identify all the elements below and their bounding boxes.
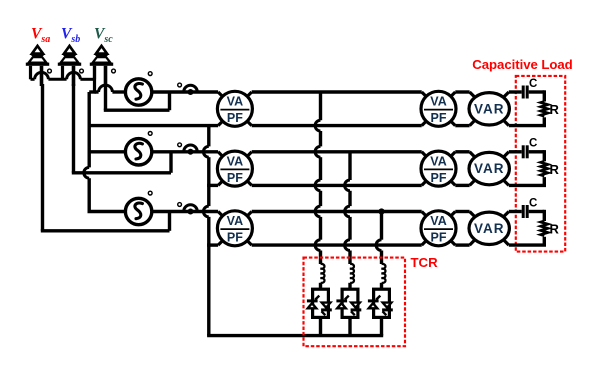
AC source phase c (125, 198, 151, 224)
svg-text:VA: VA (430, 214, 446, 228)
svg-text:TCR: TCR (411, 255, 439, 270)
svg-text:VA: VA (430, 154, 446, 168)
node circle (178, 83, 182, 87)
svg-text:C: C (529, 78, 537, 90)
node circle (178, 143, 182, 147)
wire: row2 return up to phase b node (169, 152, 172, 173)
AC source phase b (125, 139, 151, 165)
svg-text:C: C (529, 138, 537, 150)
top rail row1 mid (252, 90, 422, 93)
neutral bus along probe left pins (31, 78, 35, 81)
svg-text:VA: VA (430, 95, 446, 109)
bottom rail row1 mid (252, 124, 422, 127)
wire thyristor block 1 to bus (319, 317, 322, 335)
svg-text:PF: PF (227, 111, 243, 125)
svg-text:Capacitive Load: Capacitive Load (472, 57, 572, 72)
VA/PF meter row3 right (421, 211, 456, 246)
wire: row3 return horizontal (41, 229, 170, 232)
voltage probe V_sa (26, 46, 49, 86)
VAR meter row1 (469, 93, 509, 125)
wire: row3 return up to phase c node (168, 212, 171, 231)
bus hop over V_sb pin (67, 72, 81, 79)
wire: VAR to capacitor row3 (509, 210, 522, 213)
bottom wire back to VAR row3 (509, 243, 546, 246)
neutral: step to vertical (89, 90, 96, 93)
AC source phase a (125, 79, 151, 105)
inductor L1 (321, 264, 325, 283)
wire: AC b output (152, 150, 218, 153)
svg-text:VAR: VAR (474, 161, 505, 176)
meter stubs (218, 152, 222, 156)
capacitor C row1 (522, 86, 525, 99)
TCR dashed box (304, 258, 406, 347)
meter stubs (470, 212, 475, 217)
top rail row3 between meters (455, 210, 469, 213)
wire: VAR to capacitor row2 (509, 150, 522, 153)
bottom rail row1 between meters (455, 124, 469, 127)
VAR meter row2 (469, 152, 509, 184)
meter stubs (422, 152, 426, 156)
meter stubs (470, 152, 475, 157)
meter stubs (218, 212, 222, 216)
wire: V_sa pin down to row3 return (41, 84, 44, 231)
VA/PF meter row2 right (421, 151, 456, 186)
thyristor pair T3 (368, 289, 393, 317)
top rail row2 between meters (455, 150, 469, 153)
svg-text:PF: PF (431, 111, 447, 125)
tap wire phase b to TCR (348, 152, 351, 180)
VA/PF meter row1 right (421, 91, 456, 126)
meter stubs (470, 92, 475, 97)
svg-text:R: R (550, 162, 560, 177)
voltage probe V_sc (90, 46, 113, 86)
tap wire phase a to TCR (319, 92, 322, 120)
thyristor pair T1 (307, 289, 332, 317)
wire inductor to thyristor block 2 (348, 283, 351, 290)
voltage probe V_sb (58, 46, 81, 86)
junction dot with arc (188, 89, 194, 95)
svg-text:PF: PF (431, 171, 447, 185)
top rail row1 between meters (455, 90, 469, 93)
wire: V_sc pin down to row1 return (104, 84, 107, 110)
node circle (148, 191, 152, 195)
resistor R row3 (541, 221, 548, 236)
inductor L3 (382, 264, 386, 283)
node circle (148, 132, 152, 136)
thyristor pair T2 (336, 289, 361, 317)
svg-text:VA: VA (227, 154, 243, 168)
wire: AC a output (152, 90, 218, 93)
wire: neutral to AC source b (89, 150, 125, 153)
wire: VAR to capacitor row1 (509, 90, 522, 93)
svg-text:VA: VA (227, 214, 243, 228)
capacitor C row2 (522, 145, 525, 158)
top rail row2 mid (252, 150, 422, 153)
TCR bottom bus (207, 334, 383, 337)
svg-text:PF: PF (431, 231, 447, 245)
wire: resistor to bottom rail row2 (543, 177, 546, 185)
wire: capacitor to resistor row1 (529, 90, 545, 93)
node circle (148, 72, 152, 76)
svg-text:VA: VA (227, 95, 243, 109)
wire inductor to thyristor block 3 (380, 283, 383, 290)
wire: resistor to bottom rail row3 (543, 237, 546, 245)
wire inductor to thyristor block 1 (319, 283, 322, 290)
bottom wire back to VAR row1 (509, 124, 546, 127)
probe terminal circle (112, 69, 116, 73)
node circle (178, 203, 182, 207)
wire: capacitor to resistor row3 (529, 210, 545, 213)
bottom rail row3 left (207, 243, 218, 246)
probe terminal circle (80, 69, 84, 73)
junction dot with arc (188, 149, 194, 155)
bottom rail row3 mid (252, 243, 422, 246)
VA/PF meter row2 left (217, 151, 252, 186)
meter stubs (422, 212, 426, 216)
svg-text:C: C (529, 197, 537, 209)
wire: neutral to AC source c (88, 210, 126, 213)
wire: probe V_sc left pin down (93, 66, 96, 92)
wire thyristor block 3 to bus (380, 317, 383, 335)
common return vertical wire (207, 126, 210, 147)
wire: row1 return up to phase a node (168, 92, 171, 110)
junction dot phase c tap (378, 208, 384, 214)
tap wire phase c to TCR (380, 212, 383, 240)
inductor L2 (350, 264, 354, 283)
VA/PF meter row1 left (217, 91, 252, 126)
wire: capacitor to resistor row2 (529, 150, 545, 153)
bus hop over V_sa pin (35, 72, 49, 79)
wire: row2 return horizontal (72, 171, 171, 174)
Capacitive Load dashed box (516, 76, 565, 252)
bottom rail row1 left (88, 124, 219, 127)
bottom wire back to VAR row2 (509, 184, 546, 187)
VAR meter row3 (469, 212, 509, 244)
neutral vertical wire (sources common) (87, 92, 90, 167)
bottom rail row2 left (207, 184, 218, 187)
svg-text:VAR: VAR (474, 221, 505, 236)
meter stubs (218, 92, 222, 96)
resistor R row2 (541, 161, 548, 176)
resistor R row1 (541, 102, 548, 117)
junction dot with arc (188, 209, 194, 215)
wire thyristor block 2 to bus (348, 317, 351, 335)
wire: V_sb pin down to row2 return (72, 84, 75, 173)
probe terminal circle (48, 69, 52, 73)
svg-text:R: R (550, 102, 560, 117)
svg-text:PF: PF (227, 171, 243, 185)
VA/PF meter row3 left (217, 211, 252, 246)
wire: AC c output (152, 210, 218, 213)
meter stubs (422, 92, 426, 96)
wire: resistor to bottom rail row1 (543, 117, 546, 125)
svg-text:R: R (550, 222, 560, 237)
top rail row3 mid (252, 210, 422, 213)
svg-text:VAR: VAR (474, 101, 505, 116)
bottom rail row2 mid (252, 184, 422, 187)
svg-text:PF: PF (227, 231, 243, 245)
bottom rail row3 between meters (455, 243, 469, 246)
wire: row1 return horizontal (104, 108, 170, 111)
bottom rail row2 between meters (455, 184, 469, 187)
wire: to AC source a, hop over V_sc pin (95, 90, 99, 93)
capacitor C row3 (522, 205, 525, 218)
